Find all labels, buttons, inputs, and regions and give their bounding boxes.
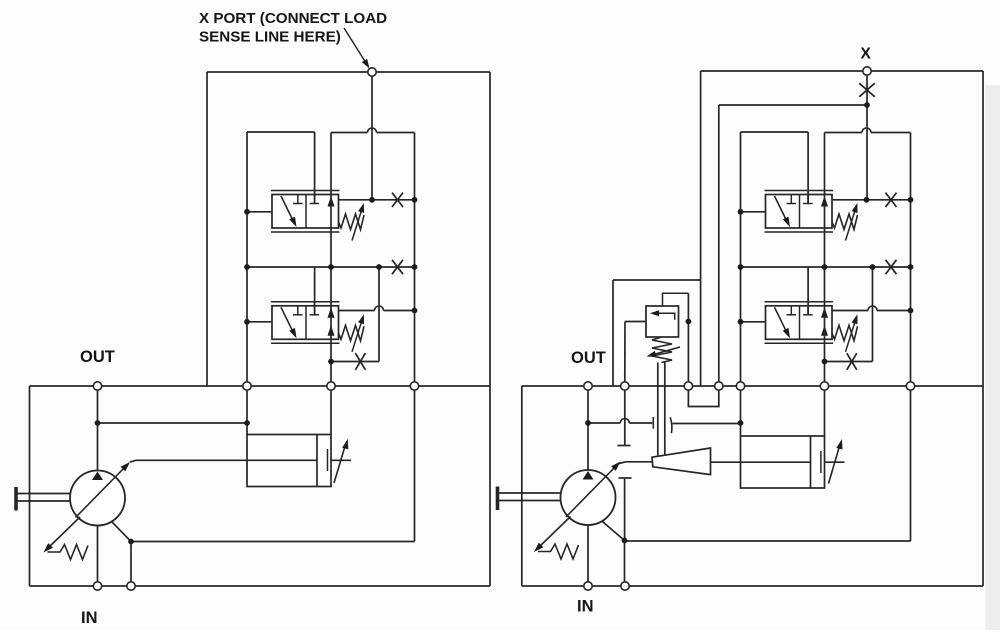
svg-text:SENSE LINE HERE): SENSE LINE HERE) <box>199 29 341 46</box>
svg-text:X PORT (CONNECT LOAD: X PORT (CONNECT LOAD <box>199 10 387 27</box>
svg-text:OUT: OUT <box>80 348 115 366</box>
svg-text:X: X <box>861 46 872 63</box>
svg-text:IN: IN <box>81 609 98 627</box>
svg-text:OUT: OUT <box>571 349 606 367</box>
svg-text:IN: IN <box>577 598 594 616</box>
